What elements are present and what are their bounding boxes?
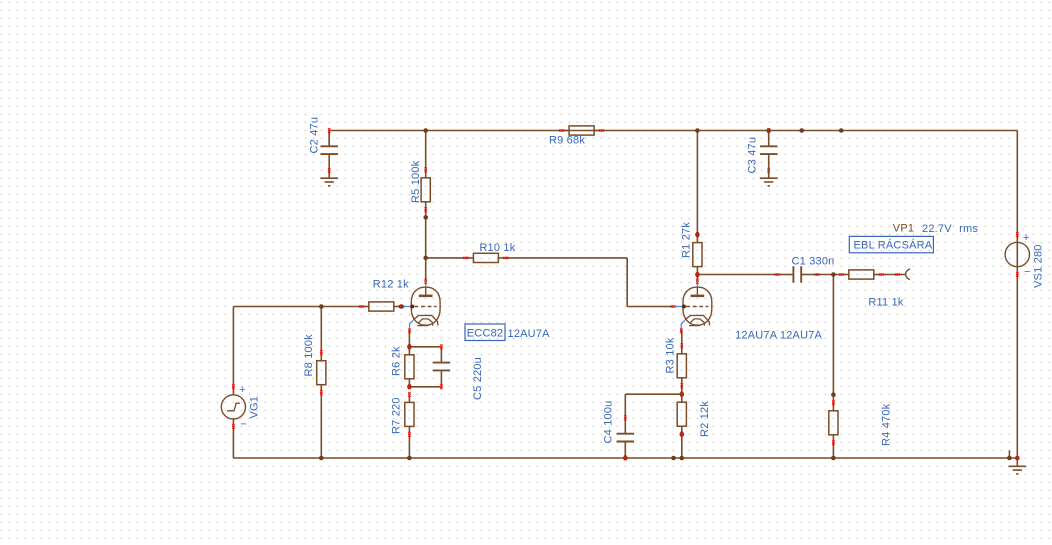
wire R8 top branch bbox=[320, 307, 322, 353]
svg-text:+: + bbox=[239, 384, 246, 396]
node top rail / R5 bbox=[423, 128, 428, 133]
resistor R3 10k bbox=[677, 343, 686, 388]
ground below C3 bbox=[760, 170, 778, 186]
resistor R7 220 bbox=[405, 392, 414, 437]
node top rail / R1 bbox=[695, 128, 700, 133]
wire R3 bottom to R2 node bbox=[681, 386, 683, 394]
node below R5 bbox=[423, 215, 428, 220]
wire V1 cathode down to R6 node bbox=[408, 329, 410, 347]
node top rail segment a bbox=[799, 128, 804, 133]
capacitor C4 100u bbox=[617, 415, 635, 460]
voltage probe VP1 tip bbox=[906, 269, 910, 280]
resistor R5 100k bbox=[421, 167, 430, 212]
wire R5 bottom to tube V1 anode bbox=[425, 210, 427, 281]
resistor R8 100k bbox=[317, 350, 326, 395]
generator VG1 bbox=[221, 384, 245, 429]
node rail / R8 bbox=[319, 456, 324, 461]
node R6 / R7 / C5 bottom bbox=[407, 385, 412, 390]
wire V2 anode node to C1 bbox=[697, 274, 777, 276]
voltage source VS1 bbox=[1005, 232, 1029, 277]
svg-text:+: + bbox=[1023, 232, 1030, 244]
node rail / R4 bbox=[831, 456, 836, 461]
node rail segment c bbox=[671, 456, 676, 461]
svg-text:C4 100u: C4 100u bbox=[603, 401, 615, 444]
wire R6 bottom node to C5 bottom bbox=[409, 386, 441, 388]
capacitor C2 47u bbox=[320, 128, 338, 173]
wire C4 branch vertical bbox=[624, 394, 626, 418]
wire R2 bottom to rail bbox=[681, 434, 683, 458]
label box ECC82 bbox=[465, 324, 505, 341]
svg-text:R10 1k: R10 1k bbox=[479, 242, 515, 254]
wire R10 feed from anode node bbox=[426, 257, 466, 259]
wire C1 to R11 junction bbox=[817, 274, 841, 276]
wire stub near right ground bbox=[1008, 450, 1010, 458]
capacitor C5 220u bbox=[433, 344, 451, 389]
node C1 / R11 / R4 bbox=[831, 272, 836, 277]
node top rail / C3 bbox=[766, 128, 771, 133]
svg-text:−: − bbox=[240, 419, 247, 431]
wire R7 bottom to rail bbox=[408, 434, 410, 458]
resistor R11 1k bbox=[839, 270, 884, 279]
wire grid node horizontal to R12 bbox=[233, 306, 361, 308]
wire VG1 to grid node bbox=[232, 307, 234, 395]
svg-text:R8 100k: R8 100k bbox=[303, 334, 315, 377]
node rail / VS1 / ground bbox=[1015, 456, 1020, 461]
resistor R12 1k bbox=[359, 302, 404, 311]
svg-text:R5 100k: R5 100k bbox=[410, 160, 422, 203]
svg-text:R9 68k: R9 68k bbox=[549, 135, 585, 147]
label box EBL RACSARA bbox=[849, 236, 933, 252]
wire R5 branch from top rail bbox=[425, 131, 427, 170]
triode tube U2 right triode bbox=[671, 279, 712, 334]
svg-text:R6 2k: R6 2k bbox=[391, 346, 403, 376]
node grid wire / R8 bbox=[319, 304, 324, 309]
ground bottom right bbox=[1008, 458, 1026, 474]
node rail / R2 bbox=[680, 456, 685, 461]
wire R10 to tube V2 grid horizontal bbox=[506, 257, 627, 259]
node rail / C4 bbox=[623, 456, 628, 461]
probe VP1 pin x bbox=[895, 273, 897, 275]
wire R8 bottom to rail bbox=[320, 393, 322, 458]
svg-text:−: − bbox=[1024, 266, 1031, 278]
resistor R9 68k bbox=[559, 126, 604, 135]
svg-text:22.7V: 22.7V bbox=[922, 223, 952, 235]
svg-text:VS1 280: VS1 280 bbox=[1033, 244, 1045, 288]
wire R10 path vertical bbox=[626, 258, 628, 307]
wire R1 branch from top rail bbox=[696, 131, 698, 235]
wire right rail down to VS1 and ground bbox=[1016, 131, 1018, 459]
svg-text:VG1: VG1 bbox=[249, 396, 261, 419]
svg-text:VP1: VP1 bbox=[893, 223, 914, 235]
wire cathode node to C5 top bbox=[409, 346, 441, 348]
svg-text:C3 47u: C3 47u bbox=[747, 137, 759, 174]
svg-text:C2 47u: C2 47u bbox=[309, 117, 321, 154]
svg-text:R11 1k: R11 1k bbox=[868, 297, 904, 309]
node R5/R10 branch bbox=[423, 256, 428, 261]
wire VG1 bottom to ground rail bbox=[232, 419, 234, 458]
svg-text:12AU7A: 12AU7A bbox=[508, 328, 551, 340]
node top rail segment b bbox=[839, 128, 844, 133]
wire top supply rail bbox=[329, 130, 1017, 132]
node rail / R7 bbox=[407, 456, 412, 461]
wire C2 top to rail bbox=[328, 131, 330, 147]
svg-text:rms: rms bbox=[959, 223, 978, 235]
wire into V2 grid bbox=[627, 306, 673, 308]
node R4 top bbox=[831, 392, 836, 397]
wire bottom ground rail bbox=[233, 457, 1017, 459]
ground below C2 bbox=[320, 170, 338, 186]
wire junction down to R4 bbox=[832, 275, 834, 403]
wire R11 to probe VP1 bbox=[881, 274, 905, 276]
svg-text:R1 27k: R1 27k bbox=[681, 222, 693, 258]
resistor R10 1k bbox=[463, 253, 508, 262]
svg-text:EBL RÁCSÁRA: EBL RÁCSÁRA bbox=[854, 238, 933, 251]
capacitor C1 330n bbox=[775, 266, 820, 282]
wire V2 cathode down to R3 bbox=[681, 329, 683, 346]
wire R4 bottom to rail bbox=[832, 443, 834, 459]
wire R2 node to C4 horizontal bbox=[625, 393, 682, 395]
resistor R2 12k bbox=[677, 392, 686, 437]
node R1 bottom / anode / C1 bbox=[695, 272, 700, 277]
svg-text:C1 330n: C1 330n bbox=[792, 255, 835, 267]
node rail stub bbox=[1007, 456, 1012, 461]
node R1 top bbox=[695, 232, 700, 237]
svg-text:ECC82: ECC82 bbox=[467, 327, 503, 339]
svg-text:R7 220: R7 220 bbox=[391, 397, 403, 434]
svg-text:R3 10k: R3 10k bbox=[665, 337, 677, 373]
svg-text:R2 12k: R2 12k bbox=[699, 401, 711, 437]
svg-text:12AU7A 12AU7A: 12AU7A 12AU7A bbox=[735, 329, 822, 341]
node R3 / R2 / C4 bbox=[680, 392, 685, 397]
capacitor C3 47u bbox=[760, 128, 778, 173]
wire R1 bottom to V2 anode bbox=[696, 275, 698, 282]
resistor R6 2k bbox=[405, 344, 414, 389]
svg-text:R4 470k: R4 470k bbox=[881, 403, 893, 446]
svg-text:C5 220u: C5 220u bbox=[472, 357, 484, 400]
node V1 cathode / R6 / C5 bbox=[407, 345, 412, 350]
svg-text:R12 1k: R12 1k bbox=[373, 278, 409, 290]
resistor R1 27k bbox=[693, 232, 702, 277]
triode tube U1 ECC82 left triode bbox=[399, 279, 440, 334]
node R2 bottom bbox=[680, 432, 685, 437]
node R12 / V1 grid bbox=[399, 304, 404, 309]
resistor R4 470k bbox=[829, 400, 838, 445]
